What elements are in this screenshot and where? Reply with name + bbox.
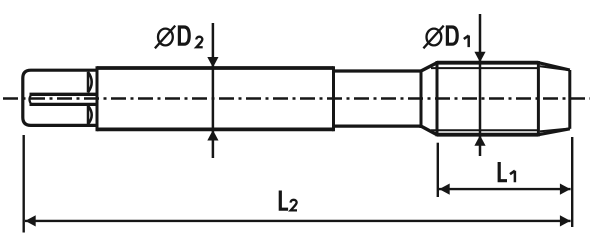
L1/L2 right extension line	[571, 137, 573, 227]
neck right end vertical	[420, 70, 423, 129]
dimension D2 down arrowhead	[207, 57, 218, 68]
thread minor diameter bottom thin line	[431, 129, 538, 131]
L2 right arrowhead	[560, 215, 571, 226]
L1 dimension line	[439, 188, 571, 190]
square right upper runout arc	[88, 72, 92, 93]
dimension D1 vertical line	[479, 14, 482, 156]
head bottom edge major diameter	[437, 133, 538, 137]
square flat upper edge line	[30, 93, 96, 96]
L2 dimension line	[25, 220, 571, 222]
neck top edge	[334, 69, 422, 72]
label D of D2	[179, 27, 189, 44]
L1 left arrowhead	[439, 184, 450, 195]
head entry chamfer bottom	[421, 126, 437, 135]
L1 left extension line	[437, 143, 439, 197]
shank top edge	[97, 66, 334, 70]
square drive end outline	[23, 70, 97, 125]
head left vertical	[436, 61, 439, 136]
L2 left arrowhead	[25, 215, 36, 226]
label subscript 2 of D2	[196, 37, 202, 48]
square flat lower edge line	[30, 103, 96, 106]
label diameter symbol of D2	[155, 26, 175, 49]
head right chamfer thin bottom	[540, 129, 570, 132]
head right chamfer top	[538, 63, 569, 70]
head entry chamfer top	[421, 63, 437, 71]
label subscript 1 of D1	[464, 36, 469, 48]
dimension D1 up arrowhead	[474, 135, 485, 146]
head right end vertical edge	[568, 70, 571, 129]
shank right end vertical	[332, 66, 335, 131]
label subscript 1 of L1	[510, 171, 515, 183]
shank bottom edge	[97, 127, 334, 131]
wire centerline dash-dot axis	[3, 97, 590, 100]
dimension D2 up arrowhead	[207, 130, 218, 141]
shank left junction vertical	[96, 66, 99, 131]
thread minor diameter top thin line	[431, 67, 538, 69]
square right lower runout arc	[88, 106, 92, 125]
dimension D2 vertical line	[212, 23, 215, 158]
head right chamfer thin top	[540, 66, 570, 70]
dimension D1 down arrowhead	[474, 52, 485, 63]
label L of L2	[280, 191, 288, 210]
head right chamfer bottom	[538, 129, 569, 135]
label subscript 2 of L2	[291, 200, 297, 211]
L1 right arrowhead	[560, 184, 571, 195]
label D of D1	[447, 27, 457, 44]
neck bottom edge	[334, 124, 422, 127]
head right vertical chamfer start	[537, 61, 540, 136]
L2 left extension line	[23, 135, 25, 233]
head top edge major diameter	[437, 61, 538, 65]
square left small arc	[30, 94, 32, 105]
label L of L1	[499, 162, 507, 181]
label diameter symbol of D1	[423, 26, 443, 49]
